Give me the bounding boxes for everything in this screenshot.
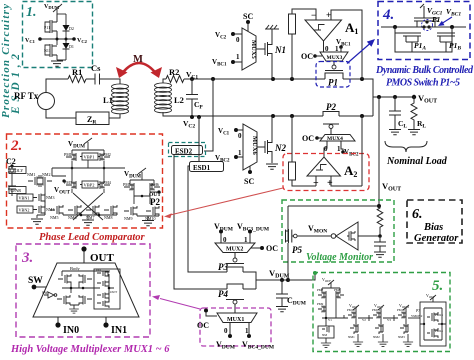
transistor P11 box1	[45, 14, 57, 39]
box 1 border	[23, 2, 93, 68]
svg-text:NM1: NM1	[348, 335, 355, 339]
blue arrow to box4	[347, 44, 370, 64]
wire MUX3 to P1 gate	[333, 61, 335, 65]
svg-text:4.: 4.	[382, 7, 394, 23]
svg-text:−: −	[313, 178, 319, 189]
svg-text:−: −	[311, 10, 316, 20]
transistor P1B box4	[437, 27, 455, 42]
svg-text:PM6: PM6	[151, 182, 159, 187]
svg-text:Bias: Bias	[423, 222, 443, 233]
svg-text:PMC1: PMC1	[372, 308, 381, 312]
svg-text:SW: SW	[42, 291, 48, 295]
trapezoid MUX	[33, 263, 139, 317]
IN0 node	[57, 317, 59, 323]
svg-text:1: 1	[245, 327, 249, 335]
transistor P1 top box4	[414, 18, 438, 27]
MUX1 inputs	[230, 323, 249, 335]
wire MUX5 out to N1 gate	[256, 48, 265, 50]
svg-text:0: 0	[224, 327, 228, 335]
red arrow A2 to box2	[170, 188, 283, 215]
VM top wire	[288, 205, 379, 207]
VBC2 label MUX4	[341, 150, 345, 154]
svg-text:NM3: NM3	[46, 195, 54, 200]
A1 triangle	[305, 20, 342, 41]
svg-text:1: 1	[236, 53, 240, 61]
svg-text:MUX3: MUX3	[327, 55, 343, 61]
transistor P1A box4	[395, 27, 421, 42]
wire Zr to source bottom	[46, 110, 76, 119]
IN1 node	[105, 317, 107, 323]
svg-text:M: M	[133, 54, 143, 65]
svg-text:NM2: NM2	[42, 172, 50, 177]
transistor N2	[265, 116, 272, 163]
svg-text:OC: OC	[301, 52, 313, 61]
Zr box	[76, 112, 109, 125]
transistor P5	[286, 206, 294, 243]
box1 mid cross wire	[40, 39, 74, 60]
svg-text:PMOS Switch P1~5: PMOS Switch P1~5	[386, 78, 460, 89]
svg-text:PM1: PM1	[64, 152, 72, 157]
magenta arrow to box3	[160, 299, 200, 310]
diode D2 box1	[63, 14, 70, 43]
svg-text:NM2: NM2	[373, 335, 380, 339]
capacitor CDUM	[276, 280, 288, 306]
mutual coupling arrow M	[120, 63, 158, 76]
svg-text:MUX2: MUX2	[226, 247, 243, 253]
box4 mid rail	[381, 26, 466, 28]
inverter bubble	[331, 234, 336, 239]
wire MUX6 out to N2 gate	[257, 146, 265, 148]
ESD1 box	[190, 162, 224, 172]
svg-text:VC2: VC2	[77, 38, 88, 44]
svg-text:P11: P11	[44, 25, 50, 30]
transistor N11 box1	[45, 44, 57, 57]
capacitor Cp	[186, 79, 198, 117]
VDUM wire to box5	[288, 273, 315, 280]
bottom rail box2	[63, 215, 117, 220]
svg-text:NM1: NM1	[27, 172, 35, 177]
svg-text:Voltage Monitor: Voltage Monitor	[306, 252, 373, 263]
svg-text:N1: N1	[274, 45, 286, 55]
VOUT rail down	[378, 97, 380, 206]
hysteresis glyph A2	[316, 165, 327, 171]
svg-text:1: 1	[337, 145, 341, 153]
pmos PM4	[100, 181, 110, 189]
svg-text:V2: V2	[362, 318, 366, 322]
VBN1 box and NM3	[17, 194, 33, 201]
svg-text:PM9: PM9	[317, 302, 324, 306]
inner inverter	[44, 292, 54, 298]
MUX3	[320, 52, 348, 61]
A2 resistor	[289, 162, 296, 180]
svg-text:IN1: IN1	[111, 325, 127, 336]
svg-text:OUT: OUT	[110, 290, 118, 294]
box1 center rail wire	[56, 14, 58, 60]
VBP1 box	[82, 153, 98, 160]
pmos PM2	[100, 153, 110, 161]
svg-text:+: +	[327, 178, 333, 189]
svg-text:3.: 3.	[21, 250, 33, 266]
svg-text:PM8: PM8	[334, 288, 341, 292]
svg-text:2.: 2.	[10, 138, 22, 154]
wire R1 to Cs	[86, 78, 95, 80]
box4 bottom frame	[395, 33, 452, 52]
VBN2 box and NM4	[17, 206, 33, 213]
wire VC2 to ESD1	[198, 117, 200, 161]
svg-text:PM12: PM12	[397, 308, 405, 312]
P5 drain to VDUM	[287, 243, 289, 280]
vout branch	[373, 96, 414, 98]
inner nmos pair	[57, 295, 70, 305]
svg-text:Nominal Load: Nominal Load	[386, 156, 448, 167]
RF Tx source	[38, 93, 55, 110]
svg-text:SW: SW	[28, 276, 43, 286]
svg-text:RF Tx: RF Tx	[14, 91, 39, 101]
svg-text:1.: 1.	[26, 5, 37, 20]
VM capacitor	[374, 236, 386, 252]
svg-text:PM5: PM5	[123, 182, 131, 187]
svg-text:Dynamic Bulk Controlled: Dynamic Bulk Controlled	[375, 65, 474, 76]
inner pmos pair	[58, 274, 71, 284]
capacitor Cs	[95, 74, 100, 85]
A2 red box	[283, 154, 369, 191]
svg-text:NM5: NM5	[50, 215, 58, 220]
VM resistor	[377, 206, 383, 236]
resistor R2	[166, 76, 184, 83]
VM box	[282, 200, 394, 262]
svg-text:VBN1: VBN1	[19, 196, 30, 201]
svg-text:OC: OC	[197, 321, 209, 330]
svg-text:C2: C2	[6, 157, 16, 166]
svg-text:MUX5: MUX5	[250, 40, 257, 60]
wire Cs to L1	[100, 79, 121, 84]
svg-text:Body: Body	[70, 266, 81, 271]
svg-text:Phase Lead Comparator: Phase Lead Comparator	[39, 232, 145, 243]
svg-text:R2: R2	[169, 67, 179, 77]
svg-text:VBN2: VBN2	[19, 208, 30, 213]
wire P5 gate to inverter	[297, 235, 331, 237]
svg-text:CPAR: CPAR	[11, 188, 22, 193]
svg-text:SC: SC	[243, 12, 253, 21]
svg-text:PM2: PM2	[103, 152, 111, 157]
svg-text:+: +	[326, 10, 331, 20]
MUX2	[215, 243, 255, 253]
svg-text:OC: OC	[266, 244, 278, 253]
wire ESD2 down to P4	[174, 155, 227, 290]
curly brace	[385, 141, 427, 152]
svg-text:NM3: NM3	[398, 335, 405, 339]
svg-text:0: 0	[238, 132, 242, 140]
svg-text:Generator: Generator	[414, 233, 459, 244]
MUX1	[217, 313, 257, 323]
svg-text:IN1: IN1	[96, 268, 102, 272]
svg-text:NM6: NM6	[68, 215, 76, 220]
OC label MUX1	[204, 309, 208, 313]
ESD2 box	[169, 143, 206, 157]
P1 gate bubble	[332, 65, 336, 69]
svg-text:VBP2: VBP2	[84, 183, 95, 188]
wire VC1 to ESD2	[204, 79, 213, 151]
MUX5	[242, 28, 256, 70]
svg-text:PM14: PM14	[435, 329, 443, 333]
svg-text:OUT: OUT	[90, 252, 115, 264]
svg-text:VMON2: VMON2	[411, 314, 423, 318]
inner right block	[94, 269, 120, 309]
svg-text:CPOLY: CPOLY	[10, 168, 23, 173]
svg-text:OC: OC	[302, 134, 314, 143]
capacitor CL	[389, 97, 401, 129]
feedback resistor A1	[289, 14, 296, 34]
svg-text:IN0: IN0	[63, 325, 79, 336]
blue arrow VBC1	[441, 17, 452, 24]
wire SC to MUX5	[247, 24, 249, 31]
svg-text:V3: V3	[387, 318, 391, 322]
box 2 border	[7, 134, 163, 228]
bulk dot circled	[422, 20, 433, 31]
switch slash box1	[53, 4, 62, 14]
svg-text:L2: L2	[174, 95, 184, 105]
svg-text:NM7: NM7	[86, 215, 94, 220]
pmos PM5 PM6	[130, 177, 154, 184]
box 4 border	[378, 2, 470, 60]
verticals row1 to row2	[72, 160, 104, 182]
svg-text:NM8: NM8	[104, 215, 112, 220]
MUX6	[243, 124, 257, 170]
wire source top	[46, 79, 68, 93]
nmos NM9 NM10	[124, 206, 137, 216]
svg-text:N2: N2	[274, 143, 286, 153]
cross coupled X	[72, 189, 104, 220]
svg-text:PM13: PM13	[435, 313, 443, 317]
hatch ground above N1	[265, 25, 279, 36]
svg-text:NM4: NM4	[46, 207, 54, 212]
svg-text:0: 0	[236, 36, 240, 44]
box 3 border	[16, 244, 150, 337]
svg-text:PM7: PM7	[317, 288, 324, 292]
hysteresis glyph A1	[314, 25, 325, 31]
svg-text:V1: V1	[328, 318, 332, 322]
diode D1 box1	[63, 49, 70, 60]
svg-text:D2: D2	[69, 26, 74, 31]
svg-text:5.: 5.	[432, 278, 443, 294]
box1 top link wire	[57, 13, 66, 15]
inductor L1	[112, 84, 129, 114]
OC label MUX2	[260, 246, 264, 250]
inductor L2	[155, 83, 172, 113]
svg-text:Cs: Cs	[91, 63, 101, 73]
svg-text:N11: N11	[44, 48, 51, 53]
svg-text:PM10: PM10	[347, 308, 355, 312]
inner mosfet glyph	[347, 231, 355, 241]
VBP2 box	[82, 181, 98, 188]
svg-text:SC: SC	[244, 177, 254, 186]
svg-text:R1: R1	[72, 67, 82, 77]
svg-text:P2: P2	[326, 102, 336, 112]
OUT node	[81, 246, 86, 251]
wire A1 out to MUX3	[323, 41, 325, 52]
A2 triangle	[307, 157, 341, 176]
inverter out	[358, 235, 380, 237]
svg-text:6.: 6.	[412, 207, 423, 222]
nmos NM1 NM2	[28, 175, 41, 187]
bus VC2	[163, 112, 373, 116]
wire L1 bottom to Zr	[109, 114, 120, 118]
svg-text:ESD2: ESD2	[175, 148, 193, 156]
svg-text:P7: P7	[415, 309, 420, 313]
svg-text:VC1: VC1	[25, 38, 36, 44]
wire L2 top to R2	[163, 79, 166, 83]
wire N1 source to bus	[271, 61, 273, 79]
svg-text:High Voltage Multiplexer MUX1: High Voltage Multiplexer MUX1 ~ 6	[10, 344, 170, 355]
ground box1	[51, 61, 63, 66]
svg-text:P4: P4	[218, 289, 228, 299]
transistor N1	[265, 36, 272, 61]
wire ESD1 down to P3	[188, 166, 227, 272]
svg-text:P2: P2	[150, 197, 160, 207]
svg-text:PM4: PM4	[103, 180, 111, 185]
P1 dashed box	[316, 62, 350, 88]
svg-text:VBP1: VBP1	[84, 155, 95, 160]
resistor RL	[411, 97, 417, 129]
inverter triangle	[336, 222, 358, 250]
svg-text:P1: P1	[432, 15, 440, 24]
resistor R1	[68, 76, 86, 83]
MUX1 dashed box	[200, 308, 271, 346]
svg-text:P5: P5	[292, 245, 302, 255]
nmos row NM5-NM8	[50, 205, 63, 215]
bus VC1	[184, 79, 373, 116]
svg-text:NM9: NM9	[124, 216, 132, 221]
svg-text:ESD1: ESD1	[193, 164, 211, 172]
svg-text:VDUM: VDUM	[44, 4, 60, 10]
svg-text:MUX6: MUX6	[251, 136, 258, 156]
svg-text:MUX1: MUX1	[227, 317, 244, 323]
pmos PM3	[66, 181, 76, 189]
svg-text:L1: L1	[103, 95, 113, 105]
P3/P4 bridge rails	[227, 272, 288, 289]
svg-text:1: 1	[238, 149, 242, 157]
MUX4	[320, 135, 355, 142]
transistor P2 bridge	[323, 112, 339, 125]
svg-text:D1: D1	[69, 44, 74, 49]
transistor P1 bridge	[325, 71, 343, 80]
wire MUX2 to P3	[234, 253, 236, 259]
pmos PM1	[72, 147, 104, 154]
svg-text:P1: P1	[328, 78, 338, 88]
svg-text:NM: NM	[322, 333, 327, 337]
